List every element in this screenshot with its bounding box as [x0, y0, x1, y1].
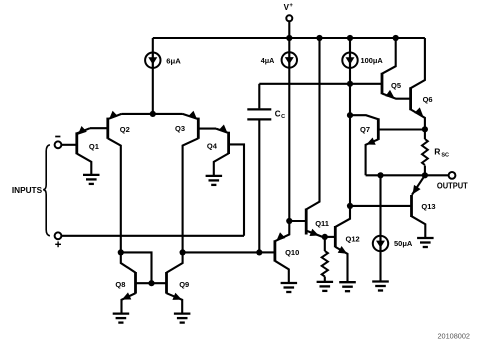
resistor R1 — [322, 251, 328, 277]
wire: Q2 emitter — [109, 114, 122, 119]
junction: Q11 collector on rail — [316, 35, 322, 41]
transistor Q11 bar — [305, 209, 308, 235]
wire: Q7 collector — [350, 115, 378, 119]
transistor Q6 bar — [409, 87, 412, 110]
junction: Q6 emitter / RSC / Q7 base — [422, 126, 428, 132]
wire: 4uA to Q10 emitter / Q11 base node — [288, 67, 290, 221]
transistor Q3 bar — [197, 118, 200, 139]
svg-text:Q2: Q2 — [120, 125, 130, 134]
Q6 emitter arrow — [414, 107, 423, 116]
wire: Q3 emitter — [183, 114, 198, 119]
wire: R1 top lead — [324, 237, 326, 251]
label Q10 — [285, 248, 299, 257]
minus sign — [55, 136, 60, 138]
wire: R1 bottom lead — [324, 277, 326, 282]
label 6uA — [166, 57, 181, 66]
wire: Q8 emitter — [122, 293, 136, 313]
inputs brace — [43, 145, 50, 236]
wire: V+ rail — [153, 37, 425, 39]
junction: Q2 collector / Q8 — [118, 249, 124, 255]
label Q12 — [346, 234, 360, 243]
label 20108002 — [438, 334, 471, 341]
transistor Q10 bar — [273, 240, 276, 261]
Q13 emitter arrow — [413, 185, 421, 194]
wire: Q1 collector to ground — [77, 154, 92, 175]
wire: Q4 emitter from Q3 base — [216, 129, 228, 133]
junction: V+ / 4uA on rail — [286, 35, 292, 41]
Q4 emitter arrow — [219, 125, 228, 134]
svg-text:C: C — [281, 114, 285, 120]
wire: CC bottom lead — [258, 120, 260, 252]
wire: Q11 emitter — [306, 231, 325, 237]
svg-text:INPUTS: INPUTS — [12, 186, 43, 195]
wire: rail to 4uA source — [288, 38, 290, 53]
Q3 emitter arrow — [188, 111, 197, 120]
wire: Q13 base — [350, 205, 412, 207]
ground (Q1 collector) — [83, 175, 100, 184]
wire: 6uA source to input emitter bus — [152, 67, 154, 114]
junction: 6uA / emitter bus — [150, 111, 156, 117]
junction: Q11 emitter / Q12 base / R1 — [322, 234, 328, 240]
wire: Q3 base (from Q4 emitter) — [198, 128, 216, 130]
label Q6 — [423, 95, 433, 104]
label Q13 — [421, 202, 435, 211]
wire: Q7 emitter to output bus — [366, 139, 379, 175]
transistor Q5 bar — [381, 73, 384, 94]
wire: Q9 collector — [167, 252, 183, 272]
ground (Q13 collector) — [417, 238, 434, 247]
junction: Q12 collector / Q13 base — [347, 203, 353, 209]
wire: Q6 collector to rail end — [411, 38, 425, 88]
wire: Q1 base to inverting input — [61, 144, 77, 146]
wire: Q2 base (from Q1 emitter) — [90, 127, 108, 129]
Q7 emitter arrow — [366, 138, 375, 145]
svg-text:Q13: Q13 — [421, 202, 435, 211]
output terminal — [449, 172, 456, 179]
current source I4 50uA — [373, 236, 388, 251]
wire: Q3 collector to Q9 — [183, 138, 199, 252]
resistor RSC — [422, 139, 428, 165]
label Q1 — [89, 142, 99, 151]
transistor Q13 bar — [410, 195, 413, 217]
Q2 emitter arrow — [109, 111, 118, 120]
wire: Q5 emitter to Q6 base — [382, 94, 411, 99]
svg-text:6μA: 6μA — [166, 57, 181, 66]
svg-text:Q1: Q1 — [89, 142, 99, 151]
Q8 emitter arrow — [122, 292, 131, 299]
ground (R1) — [317, 282, 334, 291]
wire: first stage output (Q9 to Q10 base) — [183, 251, 260, 253]
label 50uA — [394, 239, 413, 248]
junction: CC bottom / Q10 base — [256, 249, 262, 255]
label Q5 — [391, 81, 401, 90]
wire: 100uA to Q12 collector — [349, 67, 351, 206]
svg-text:+: + — [289, 3, 293, 9]
svg-text:Q10: Q10 — [285, 248, 299, 257]
wire: 50uA to ground — [379, 251, 381, 282]
Q12 emitter arrow — [338, 246, 347, 254]
svg-text:Q5: Q5 — [391, 81, 401, 90]
ground (Q4 collector) — [206, 176, 223, 185]
V+ terminal — [286, 15, 292, 38]
current source I2 4uA — [282, 52, 297, 67]
wire: Q7 base to RSC top — [378, 128, 425, 130]
label CC — [275, 109, 285, 120]
wire: Q8 collector-base link — [121, 252, 152, 283]
label INPUTS — [12, 186, 43, 195]
wire: Q8 collector — [121, 252, 136, 272]
svg-text:Q12: Q12 — [346, 234, 360, 243]
junction: Q7 collector tap — [347, 112, 353, 118]
wire: Q11 base — [289, 220, 306, 222]
wire: Q4 collector to ground — [214, 153, 229, 176]
wire: Q13 collector to ground — [412, 216, 426, 238]
wire: Q12 collector — [335, 206, 350, 227]
ground (Q10 collector) — [281, 283, 298, 292]
label 100uA — [361, 56, 384, 65]
wire: Q12 base — [325, 236, 336, 238]
wire: CC top lead — [258, 84, 260, 109]
junction: RSC / Q13 emitter on output bus — [422, 172, 428, 178]
svg-text:Q6: Q6 — [423, 95, 433, 104]
Q11 emitter arrow — [310, 229, 319, 236]
svg-text:20108002: 20108002 — [438, 334, 471, 341]
svg-text:Q4: Q4 — [207, 141, 218, 150]
label OUTPUT — [437, 181, 468, 190]
svg-text:R: R — [434, 147, 440, 157]
Q10 emitter arrow — [276, 232, 285, 241]
Q5 emitter arrow — [385, 90, 394, 98]
wire: RSC bottom lead — [424, 166, 426, 176]
label Q9 — [179, 280, 189, 289]
junction: Q3 collector / Q9 — [180, 249, 186, 255]
wire: Q9 emitter — [167, 293, 183, 313]
svg-text:Q3: Q3 — [175, 124, 185, 133]
junction: 50uA tap on output bus — [377, 172, 383, 178]
capacitor C1 CC plates — [247, 109, 271, 119]
svg-text:Q8: Q8 — [115, 280, 125, 289]
label Q2 — [120, 125, 130, 134]
wire: Q4 base to non-inverting input — [229, 144, 244, 235]
svg-text:4μA: 4μA — [261, 56, 275, 65]
ground (Q12 emitter) — [339, 282, 356, 291]
wire: rail to 6uA source — [152, 38, 154, 54]
wire: output bus — [366, 174, 449, 176]
label Q3 — [175, 124, 185, 133]
wire: Q10 base — [259, 251, 275, 253]
wire: Q10 collector to ground — [275, 261, 289, 283]
label Q4 — [207, 141, 218, 150]
wire: Q6 emitter to RSC — [411, 109, 425, 129]
wire: Q2 collector to Q8 — [108, 138, 121, 252]
wire: output bus to 50uA source — [379, 175, 381, 236]
transistor Q7 bar — [377, 118, 380, 140]
wire: CC top line to Q5 base — [259, 83, 382, 85]
label 4uA — [261, 56, 275, 65]
svg-text:100μA: 100μA — [361, 56, 384, 65]
junction: Q8/Q9 bases — [148, 280, 154, 286]
Q1 emitter arrow — [78, 126, 87, 135]
wire: Q1 emitter to Q2 base — [77, 128, 90, 133]
current source I3 100uA — [342, 53, 357, 68]
transistor Q12 bar — [334, 226, 337, 247]
label Q7 — [360, 125, 370, 134]
ground (Q8 emitter) — [113, 314, 130, 323]
wire: Q12 emitter — [335, 247, 347, 282]
non-inverting input terminal — [55, 232, 62, 239]
label Q11 — [315, 219, 329, 228]
label RSC — [434, 147, 449, 159]
ground (50uA) — [372, 282, 389, 291]
svg-text:SC: SC — [441, 153, 449, 159]
wire: Q5 collector to rail — [382, 38, 396, 74]
svg-text:Q11: Q11 — [315, 219, 329, 228]
Q9 emitter arrow — [172, 293, 181, 300]
label V+ — [284, 3, 294, 12]
transistor Q8 bar — [134, 272, 137, 294]
wire: Q11 collector to rail — [306, 38, 319, 209]
wire: non-inverting input line — [61, 235, 244, 237]
wire: Q13 emitter from output bus — [412, 175, 425, 195]
junction: Q5 collector on rail — [393, 35, 399, 41]
junction: 100uA on rail — [347, 35, 353, 41]
svg-text:C: C — [275, 109, 281, 118]
wire: Q2-Q3 emitter bus — [122, 113, 183, 115]
wire: rail to 100uA source — [349, 38, 351, 54]
wire: Q8-Q9 base link — [136, 282, 167, 284]
ground (Q9 emitter) — [174, 314, 191, 323]
svg-text:50μA: 50μA — [394, 239, 413, 248]
label Q8 — [115, 280, 125, 289]
transistor Q1 bar — [75, 132, 78, 154]
svg-text:Q7: Q7 — [360, 125, 370, 134]
svg-text:Q9: Q9 — [179, 280, 189, 289]
svg-text:OUTPUT: OUTPUT — [437, 181, 468, 190]
current source I1 6uA — [145, 53, 160, 68]
wire: RSC top lead — [424, 129, 426, 139]
transistor Q9 bar — [165, 272, 168, 294]
plus sign — [55, 241, 61, 247]
transistor Q4 bar — [227, 132, 230, 154]
inverting input terminal — [55, 141, 62, 148]
junction: CC line / 100uA column — [347, 81, 353, 87]
wire: Q10 emitter — [275, 221, 289, 241]
transistor Q2 bar — [106, 118, 109, 139]
junction: 4uA / Q10 emitter / Q11 base — [286, 218, 292, 224]
